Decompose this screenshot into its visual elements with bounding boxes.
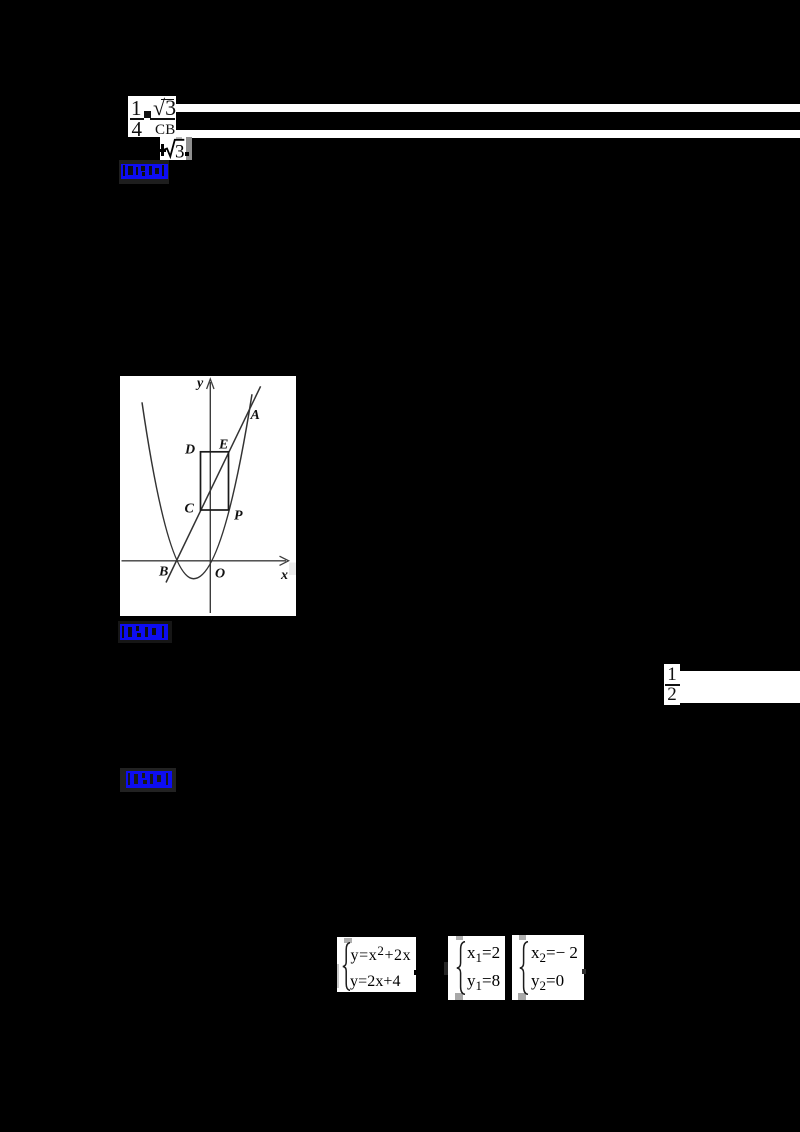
brace of system 2 [456, 941, 466, 995]
fraction 1/4 [131, 102, 139, 115]
svg-text:B: B [158, 565, 168, 580]
rectangle CDEP [201, 452, 229, 510]
blue link block 3 [120, 768, 176, 792]
svg-text:A: A [250, 408, 260, 423]
line y=2x+4 [166, 386, 261, 582]
blue link block 2 [118, 621, 172, 643]
fraction 1/2 [664, 664, 681, 705]
formula box 2: =√3. [160, 137, 186, 160]
svg-text:O: O [215, 567, 225, 582]
comma after system 3 [582, 969, 586, 974]
parabola y=x^2+2x [142, 394, 252, 578]
svg-text:C: C [185, 502, 195, 517]
equation system box 3: {x2=-2 ; y2=0} [512, 935, 584, 1000]
svg-text:P: P [234, 509, 243, 524]
equation system box 1: {y=x^2+2x ; y=2x+4} [337, 937, 417, 993]
dark mark between systems [444, 962, 452, 975]
brace of system 1 [342, 942, 351, 991]
white strip 1 (right of top formula) [176, 104, 800, 112]
formula box 1: 1/4 · √3/CB [128, 96, 176, 137]
fraction √3 / CB [153, 101, 176, 115]
multiplication dot [144, 111, 152, 118]
graph figure [120, 376, 296, 616]
x axis [122, 560, 287, 562]
blue link block 1 [119, 160, 169, 184]
svg-text:3: 3 [175, 141, 185, 160]
svg-text:E: E [218, 438, 228, 453]
white strip 2 (right of top formula) [176, 130, 800, 139]
svg-text:D: D [184, 443, 195, 458]
y axis [209, 382, 211, 613]
svg-text:y: y [195, 376, 204, 391]
svg-text:x: x [280, 568, 288, 583]
labels [158, 376, 288, 583]
equation system box 2: {x1=2 ; y1=8} [448, 936, 505, 1000]
brace of system 3 [519, 941, 529, 995]
